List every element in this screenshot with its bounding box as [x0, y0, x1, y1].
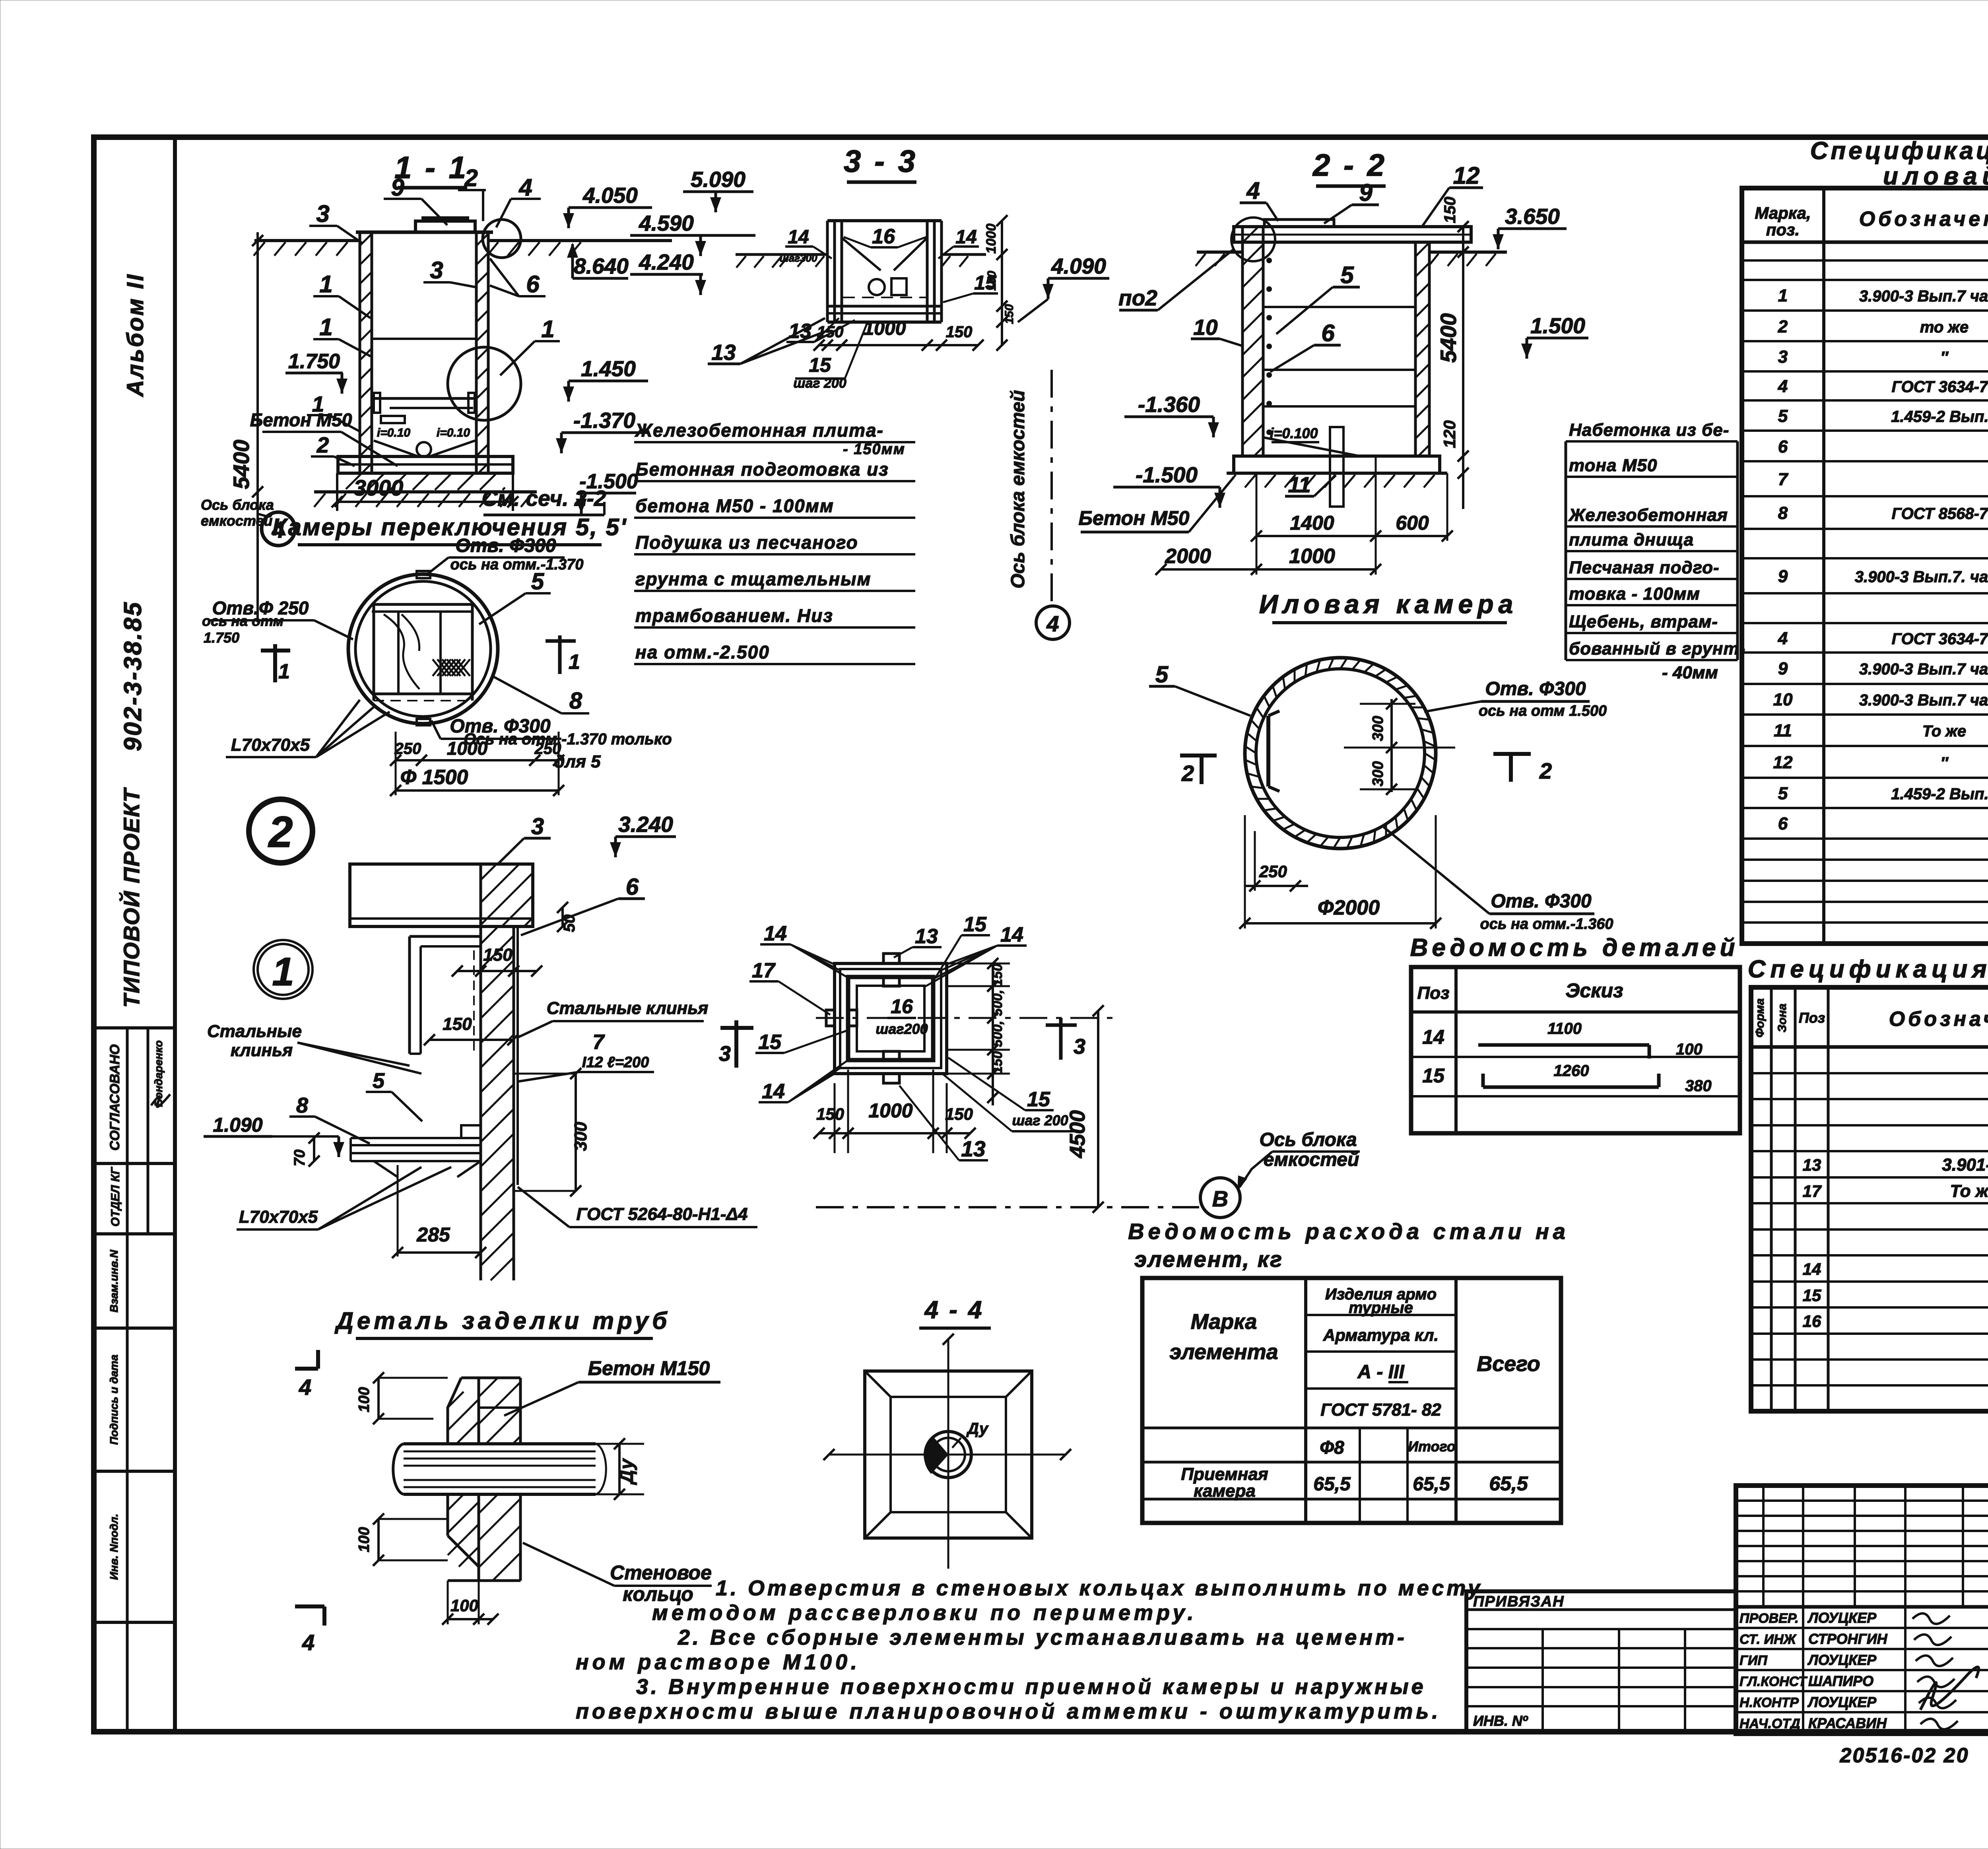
svg-text:13: 13 [711, 340, 736, 365]
svg-text:КРАСАВИН: КРАСАВИН [1808, 1715, 1887, 1731]
svg-text:1.459-2 Вып.1: 1.459-2 Вып.1 [1891, 408, 1988, 425]
svg-text:Бетон М50: Бетон М50 [250, 410, 352, 430]
svg-text:3: 3 [719, 1042, 731, 1066]
svg-text:2: 2 [1778, 317, 1788, 336]
svg-text:1: 1 [541, 316, 554, 342]
svg-text:4: 4 [518, 174, 532, 201]
svg-text:250: 250 [394, 740, 421, 757]
svg-text:Спецификация к камерам пере: Спецификация к камерам переключения, [1810, 137, 1988, 165]
svg-text:2: 2 [1539, 758, 1552, 783]
svg-text:5400: 5400 [229, 440, 254, 489]
svg-text:16: 16 [1803, 1312, 1821, 1330]
svg-text:ИНВ. Nº: ИНВ. Nº [1473, 1713, 1528, 1729]
svg-text:5: 5 [1340, 262, 1354, 288]
svg-text:1000: 1000 [868, 1099, 912, 1122]
svg-text:-1.370: -1.370 [573, 408, 635, 433]
svg-text:ГОСТ 8568-77: ГОСТ 8568-77 [1892, 505, 1988, 522]
svg-text:1.450: 1.450 [581, 356, 636, 381]
svg-text:12: 12 [1453, 162, 1480, 189]
svg-text:Ось блока емкостей: Ось блока емкостей [1008, 390, 1029, 588]
svg-text:Марка: Марка [1191, 1310, 1257, 1334]
svg-text:-1.500: -1.500 [1136, 462, 1198, 487]
svg-text:шаг300: шаг300 [780, 252, 817, 264]
svg-text:i=0.10: i=0.10 [377, 426, 411, 439]
svg-text:4500: 4500 [1066, 1110, 1089, 1158]
svg-text:150: 150 [443, 1014, 472, 1034]
svg-text:ПРОВЕР.: ПРОВЕР. [1739, 1611, 1799, 1626]
svg-text:150: 150 [990, 964, 1005, 987]
svg-text:14: 14 [1000, 923, 1023, 946]
svg-text:10: 10 [1773, 690, 1793, 709]
svg-text:3 - 3: 3 - 3 [844, 144, 918, 179]
svg-text:НАЧ.ОТД: НАЧ.ОТД [1739, 1716, 1800, 1731]
svg-text:камера: камера [1194, 1481, 1256, 1501]
svg-text:поверхности выше планировочн: поверхности выше планировочной атметки -… [576, 1699, 1441, 1723]
svg-text:Ведомость расхода стали на: Ведомость расхода стали на [1128, 1219, 1569, 1244]
svg-text:10: 10 [1193, 315, 1218, 340]
svg-text:1000: 1000 [984, 223, 999, 254]
svg-text:шаг200: шаг200 [876, 1021, 928, 1037]
svg-text:-1.360: -1.360 [1138, 392, 1200, 417]
svg-text:7: 7 [593, 1031, 605, 1054]
svg-text:14: 14 [762, 1080, 785, 1103]
svg-text:бованный в грунт-: бованный в грунт- [1569, 639, 1745, 658]
svg-text:1: 1 [278, 660, 290, 683]
svg-text:5: 5 [373, 1069, 385, 1093]
svg-text:Стальные клинья: Стальные клинья [547, 998, 709, 1018]
svg-text:8: 8 [1778, 503, 1788, 523]
svg-text:ось на отм.-1.360: ось на отм.-1.360 [1480, 916, 1613, 932]
svg-text:14: 14 [1803, 1260, 1821, 1278]
svg-text:турные: турные [1349, 1299, 1413, 1317]
svg-text:трамбованием. Низ: трамбованием. Низ [635, 605, 833, 626]
svg-text:Альбом II: Альбом II [122, 273, 148, 398]
svg-text:16: 16 [872, 225, 895, 248]
svg-text:4 - 4: 4 - 4 [924, 1296, 984, 1324]
svg-text:100: 100 [450, 1596, 478, 1615]
svg-text:Зона: Зона [1776, 1004, 1789, 1032]
svg-text:Взам.инв.N: Взам.инв.N [108, 1249, 120, 1312]
svg-text:9: 9 [391, 174, 404, 201]
svg-text:3: 3 [316, 200, 329, 227]
svg-text:14: 14 [788, 227, 809, 248]
svg-text:L70х70х5: L70х70х5 [239, 1207, 318, 1227]
svg-text:3: 3 [430, 257, 443, 284]
svg-text:3000: 3000 [354, 475, 404, 500]
svg-text:элемент, кг: элемент, кг [1134, 1247, 1283, 1272]
svg-text:ЛОУЦКЕР: ЛОУЦКЕР [1807, 1694, 1877, 1710]
svg-text:Всего: Всего [1477, 1352, 1540, 1376]
svg-text:4: 4 [1046, 611, 1059, 636]
svg-text:2. Все сборные элементы уст: 2. Все сборные элементы устанавливать на… [678, 1626, 1407, 1649]
svg-text:1: 1 [272, 950, 294, 994]
svg-text:Арматура кл.: Арматура кл. [1323, 1326, 1439, 1344]
svg-text:ЛОУЦКЕР: ЛОУЦКЕР [1807, 1610, 1877, 1626]
svg-text:ном растворе М100.: ном растворе М100. [576, 1650, 860, 1674]
svg-text:17: 17 [1803, 1182, 1822, 1200]
svg-text:500,: 500, [990, 1021, 1005, 1047]
svg-text:Ведомость деталей: Ведомость деталей [1410, 934, 1739, 961]
svg-text:Эскиз: Эскиз [1565, 979, 1623, 1002]
svg-text:150: 150 [1003, 304, 1016, 324]
svg-text:9: 9 [1778, 567, 1788, 586]
svg-text:15: 15 [963, 913, 987, 936]
svg-text:6: 6 [626, 874, 639, 900]
svg-text:3.901- 5: 3.901- 5 [1942, 1155, 1988, 1175]
svg-text:65,5: 65,5 [1413, 1474, 1450, 1495]
svg-text:1000: 1000 [864, 318, 906, 339]
svg-text:i=0.10: i=0.10 [437, 426, 470, 439]
svg-text:3. Внутренние поверхности пр: 3. Внутренние поверхности приемной камер… [636, 1675, 1426, 1699]
svg-text:100: 100 [356, 1387, 373, 1412]
svg-text:ось на отм: ось на отм [202, 613, 283, 629]
svg-text:3: 3 [1074, 1035, 1085, 1059]
svg-text:Марка,: Марка, [1755, 204, 1811, 222]
svg-text:3.900-3 Вып.7 часть1: 3.900-3 Вып.7 часть1 [1859, 691, 1988, 709]
svg-text:Ось на отм.-1.370 только: Ось на отм.-1.370 только [464, 730, 672, 748]
svg-text:ГОСТ 3634-79: ГОСТ 3634-79 [1892, 378, 1988, 396]
svg-text:4.240: 4.240 [639, 250, 694, 274]
svg-text:65,5: 65,5 [1313, 1474, 1351, 1495]
svg-text:120: 120 [1440, 420, 1459, 448]
svg-text:1000: 1000 [447, 738, 488, 759]
svg-text:плита днища: плита днища [1569, 530, 1694, 550]
svg-text:1.750: 1.750 [204, 629, 239, 646]
svg-text:1: 1 [319, 271, 332, 297]
svg-text:15: 15 [1027, 1088, 1050, 1111]
svg-text:Бетонная подготовка из: Бетонная подготовка из [635, 459, 889, 480]
svg-text:20516-02 20: 20516-02 20 [1839, 1744, 1969, 1767]
svg-text:Иловая камера: Иловая камера [1259, 589, 1518, 619]
svg-text:- 150мм: - 150мм [843, 441, 905, 458]
svg-text:ось на отм 1.500: ось на отм 1.500 [1479, 703, 1607, 719]
svg-text:ТИПОВОЙ ПРОЕКТ: ТИПОВОЙ ПРОЕКТ [119, 787, 144, 1008]
svg-text:методом рассверловки по пери: методом рассверловки по периметру. [652, 1601, 1197, 1625]
svg-text:См. сеч. 2-2: См. сеч. 2-2 [482, 486, 606, 511]
svg-text:Н.КОНТР: Н.КОНТР [1739, 1695, 1799, 1710]
svg-text:ось на отм.-1.370: ось на отм.-1.370 [450, 556, 583, 573]
svg-text:на отм.-2.500: на отм.-2.500 [635, 642, 770, 662]
svg-text:СТРОНГИН: СТРОНГИН [1808, 1631, 1888, 1647]
svg-text:15: 15 [758, 1031, 782, 1054]
svg-text:1400: 1400 [1290, 512, 1334, 534]
svg-text:3.900-3 Вып.7 часть1: 3.900-3 Вып.7 часть1 [1859, 660, 1988, 678]
svg-text:Ось блока: Ось блока [1259, 1129, 1357, 1150]
svg-text:250: 250 [1259, 862, 1287, 881]
svg-text:13: 13 [915, 925, 938, 948]
svg-text:4.090: 4.090 [1051, 254, 1106, 278]
svg-text:300: 300 [1370, 716, 1386, 741]
svg-text:клинья: клинья [231, 1041, 293, 1060]
svg-text:13: 13 [1803, 1156, 1821, 1174]
svg-text:17: 17 [752, 959, 776, 982]
svg-text:3: 3 [1778, 347, 1788, 367]
svg-text:2: 2 [1181, 761, 1194, 786]
svg-text:Щебень, втрам-: Щебень, втрам- [1569, 612, 1718, 631]
svg-text:7: 7 [1778, 470, 1789, 489]
svg-text:150: 150 [990, 1051, 1005, 1074]
svg-text:5: 5 [1778, 784, 1788, 803]
svg-text:4: 4 [299, 1375, 311, 1400]
svg-text:Спецификация к приемной кам: Спецификация к приемной камере [1748, 956, 1988, 983]
svg-text:15: 15 [1803, 1286, 1821, 1305]
svg-text:14: 14 [1422, 1026, 1444, 1048]
svg-text:902-3-38.85: 902-3-38.85 [119, 601, 147, 751]
svg-text:70: 70 [291, 1150, 308, 1166]
svg-text:4: 4 [1246, 177, 1260, 204]
svg-text:Обозначение: Обозначение [1889, 1008, 1988, 1031]
svg-text:элемента: элемента [1169, 1340, 1278, 1364]
svg-text:13: 13 [961, 1136, 985, 1161]
svg-text:Бетон М150: Бетон М150 [588, 1357, 710, 1379]
svg-text:шаг 200: шаг 200 [1012, 1112, 1068, 1128]
svg-text:380: 380 [1685, 1077, 1712, 1095]
svg-text:2000: 2000 [1165, 545, 1211, 568]
svg-text:грунта с тщательным: грунта с тщательным [635, 569, 871, 589]
svg-text:i=0.100: i=0.100 [1270, 425, 1318, 441]
svg-text:То же: То же [1950, 1181, 1988, 1201]
svg-text:Набетонка из бе-: Набетонка из бе- [1569, 420, 1729, 440]
svg-text:5400: 5400 [1436, 313, 1461, 363]
svg-text:I12 ℓ=200: I12 ℓ=200 [582, 1054, 649, 1071]
svg-text:СОГЛАСОВАНО: СОГЛАСОВАНО [107, 1044, 122, 1150]
svg-text:4: 4 [1778, 377, 1788, 396]
svg-text:6: 6 [1321, 320, 1335, 346]
svg-text:5: 5 [1778, 406, 1788, 426]
svg-text:L70х70х5: L70х70х5 [231, 735, 310, 755]
svg-text:Поз: Поз [1799, 1010, 1825, 1026]
svg-text:100: 100 [356, 1527, 373, 1552]
svg-text:2: 2 [316, 433, 329, 457]
svg-text:Инв. Nподл.: Инв. Nподл. [108, 1514, 120, 1580]
svg-text:15: 15 [1422, 1064, 1445, 1087]
svg-text:1. Отверстия в стеновых коль: 1. Отверстия в стеновых кольцах выполнит… [716, 1576, 1483, 1600]
svg-text:4.050: 4.050 [582, 183, 638, 208]
svg-text:9: 9 [1359, 179, 1373, 206]
svg-text:4: 4 [1778, 629, 1788, 648]
svg-text:6: 6 [1778, 814, 1788, 833]
svg-text:1.090: 1.090 [213, 1114, 262, 1136]
svg-text:ГЛ.КОНСТ: ГЛ.КОНСТ [1739, 1674, 1808, 1689]
svg-text:150: 150 [1441, 197, 1459, 223]
svg-text:1260: 1260 [1554, 1062, 1589, 1080]
svg-text:Отв. Ф300: Отв. Ф300 [455, 535, 556, 556]
svg-text:2 - 2: 2 - 2 [1312, 148, 1387, 183]
svg-text:1: 1 [569, 651, 580, 674]
svg-text:4: 4 [302, 1630, 315, 1655]
svg-text:бетона М50 - 100мм: бетона М50 - 100мм [635, 495, 834, 516]
svg-text:ГОСТ 3634-79: ГОСТ 3634-79 [1892, 630, 1988, 648]
svg-text:150: 150 [483, 945, 513, 965]
svg-text:″: ″ [1940, 349, 1949, 366]
svg-text:″: ″ [1940, 754, 1949, 772]
svg-text:Ф2000: Ф2000 [1318, 896, 1380, 919]
svg-text:1100: 1100 [1547, 1020, 1582, 1037]
svg-text:1.500: 1.500 [1530, 313, 1585, 338]
svg-text:14: 14 [764, 922, 787, 945]
svg-text:5: 5 [1155, 662, 1169, 688]
svg-text:1000: 1000 [1289, 545, 1335, 568]
svg-text:товка - 100мм: товка - 100мм [1569, 584, 1700, 604]
svg-text:Ось блока: Ось блока [201, 497, 274, 513]
svg-text:ГОСТ 5264-80-Н1-Δ4: ГОСТ 5264-80-Н1-Δ4 [577, 1204, 748, 1224]
svg-text:8: 8 [296, 1093, 308, 1117]
svg-text:ШАПИРО: ШАПИРО [1808, 1673, 1873, 1689]
svg-text:Песчаная подго-: Песчаная подго- [1569, 558, 1720, 577]
svg-text:Ф8: Ф8 [1320, 1437, 1344, 1458]
svg-text:СТ. ИНЖ: СТ. ИНЖ [1739, 1632, 1797, 1647]
svg-text:1: 1 [319, 314, 332, 340]
svg-text:285: 285 [416, 1224, 450, 1246]
svg-text:Поз: Поз [1417, 983, 1450, 1003]
svg-text:65,5: 65,5 [1489, 1472, 1528, 1495]
svg-text:Ф 1500: Ф 1500 [400, 766, 468, 789]
svg-text:9: 9 [1778, 659, 1788, 678]
svg-text:16: 16 [891, 995, 913, 1018]
svg-text:Форма: Форма [1753, 998, 1767, 1038]
svg-text:150: 150 [816, 1105, 844, 1123]
svg-text:15: 15 [809, 354, 831, 376]
svg-text:3: 3 [531, 814, 544, 839]
svg-text:11: 11 [1774, 721, 1792, 740]
svg-text:2: 2 [268, 808, 293, 857]
svg-text:то же: то же [1920, 319, 1969, 336]
svg-text:1: 1 [1778, 286, 1788, 305]
svg-text:600: 600 [1396, 512, 1429, 534]
svg-text:3.900-3 Вып.7. часть 1: 3.900-3 Вып.7. часть 1 [1855, 568, 1988, 586]
svg-text:500,: 500, [990, 990, 1005, 1016]
svg-text:Обозначение: Обозначение [1859, 208, 1988, 231]
svg-text:14: 14 [955, 227, 977, 248]
svg-text:150: 150 [985, 271, 998, 291]
svg-text:4.590: 4.590 [639, 211, 694, 235]
svg-text:5: 5 [531, 569, 544, 594]
svg-text:Подушка из песчаного: Подушка из песчаного [635, 532, 858, 553]
svg-text:ПРИВЯЗАН: ПРИВЯЗАН [1473, 1593, 1565, 1610]
svg-text:Железобетонная плита-: Железобетонная плита- [635, 420, 884, 441]
svg-text:1.459-2 Вып.1: 1.459-2 Вып.1 [1891, 785, 1988, 803]
svg-text:ГОСТ 5781- 82: ГОСТ 5781- 82 [1320, 1400, 1441, 1420]
svg-text:Деталь заделки труб: Деталь заделки труб [334, 1307, 671, 1334]
svg-text:150: 150 [946, 323, 973, 341]
svg-text:8.640: 8.640 [574, 254, 629, 278]
svg-text:6: 6 [1778, 437, 1788, 456]
svg-text:11: 11 [1288, 472, 1310, 497]
svg-text:150: 150 [945, 1105, 973, 1123]
svg-text:То же: То же [1922, 723, 1966, 740]
svg-text:Итого: Итого [1408, 1438, 1456, 1455]
svg-text:4: 4 [272, 517, 285, 543]
svg-text:Ду: Ду [966, 1420, 989, 1437]
svg-text:ЛОУЦКЕР: ЛОУЦКЕР [1807, 1652, 1877, 1668]
svg-text:ОТДЕЛ КГ: ОТДЕЛ КГ [109, 1167, 122, 1227]
svg-text:8: 8 [569, 688, 582, 714]
svg-text:А - III: А - III [1357, 1362, 1405, 1383]
svg-text:300: 300 [571, 1122, 590, 1151]
svg-text:поз.: поз. [1766, 220, 1800, 239]
svg-text:Отв. Ф300: Отв. Ф300 [1491, 891, 1592, 912]
svg-text:6: 6 [526, 271, 540, 297]
svg-text:Стальные: Стальные [207, 1022, 302, 1041]
svg-text:Стеновое: Стеновое [610, 1562, 712, 1584]
svg-text:В: В [1212, 1186, 1228, 1211]
svg-text:- 40мм: - 40мм [1662, 663, 1718, 682]
svg-text:тона М50: тона М50 [1569, 456, 1657, 475]
svg-text:Отв. Ф300: Отв. Ф300 [1485, 678, 1586, 699]
svg-text:по2: по2 [1118, 286, 1157, 310]
svg-text:1.750: 1.750 [288, 350, 340, 373]
svg-text:3.650: 3.650 [1505, 204, 1560, 229]
svg-text:3.240: 3.240 [618, 812, 673, 837]
svg-text:5.090: 5.090 [691, 167, 745, 192]
svg-text:Железобетонная: Железобетонная [1568, 505, 1728, 525]
svg-text:1 - 1: 1 - 1 [394, 150, 468, 185]
svg-text:12: 12 [1773, 753, 1793, 772]
svg-text:ГИП: ГИП [1739, 1653, 1768, 1668]
svg-text:250: 250 [534, 740, 561, 757]
svg-text:100: 100 [1676, 1041, 1703, 1058]
svg-text:Бетон М50: Бетон М50 [1079, 507, 1190, 529]
svg-text:Подпись и дата: Подпись и дата [108, 1355, 120, 1445]
svg-text:Камеры переключения 5, 5ʹ: Камеры переключения 5, 5ʹ [272, 514, 627, 540]
svg-text:2: 2 [464, 165, 478, 191]
svg-text:300: 300 [1370, 761, 1386, 786]
svg-text:3.900-3 Вып.7 часть1: 3.900-3 Вып.7 часть1 [1859, 287, 1988, 305]
